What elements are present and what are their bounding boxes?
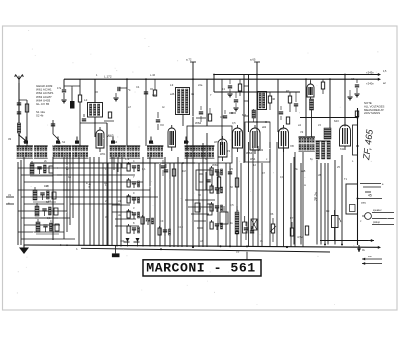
RC group G4 [36,222,40,232]
switch arm K1 [19,135,26,141]
stub wire left margin b [6,203,14,205]
diode D2 [136,238,140,242]
wire coilA bottom link [80,122,107,124]
svg-text:R7: R7 [290,216,294,220]
svg-text:0,5: 0,5 [232,121,236,125]
wire drop V95 [94,79,96,103]
capacitor C2 [62,89,66,91]
wire drop V64 [63,79,65,89]
svg-text:VH3: VH3 [258,148,264,152]
valve V10 output [340,125,351,146]
resistor R17 [286,117,289,124]
small link h118 [196,117,206,119]
wire S3 legs [113,157,115,170]
svg-text:632: 632 [340,147,345,151]
ground gnd2 [354,93,359,95]
resistor R12 crossed [251,219,257,230]
svg-text:pickup: pickup [373,221,381,224]
coil L7 [310,99,314,110]
svg-text:W6: W6 [280,127,284,131]
wire aerial branch [26,100,28,146]
svg-text:0,1: 0,1 [142,167,146,171]
wire above title [246,252,248,260]
wire HT bus main [64,78,378,80]
capacitor C4 [120,87,127,89]
wire vertical rails right [293,157,295,245]
svg-text:22a: 22a [198,83,203,87]
IF trimmer C14 [252,110,256,118]
valve V3 [168,128,176,147]
wire L3 lead [182,115,184,127]
svg-text:S2 4b: S2 4b [36,113,44,117]
wire left rail b [20,160,22,245]
diode D1 [126,238,130,242]
svg-text:17a: 17a [57,87,62,90]
switch S2b [72,145,88,147]
svg-text:46: 46 [191,92,195,96]
wire fan left-to-middle [57,167,127,169]
junction bottom d4 [192,246,194,248]
box P4 [195,203,200,212]
svg-text:W64: W64 [250,157,256,161]
stub wire left margin a [6,196,14,198]
ground main arrow [23,245,25,248]
wire left rail c [23,157,25,245]
wire nested loops right-center [185,199,215,201]
resistor R1 [79,79,81,86]
svg-text:W62: W62 [195,121,202,125]
output coil L5 [316,141,319,159]
trimmer TR6 [184,141,188,144]
svg-text:R6: R6 [270,212,274,216]
wire drop V345 [344,75,346,127]
svg-text:C9: C9 [160,219,164,223]
antenna A1 [15,75,23,84]
capacitor C8 [355,84,359,86]
down arrow earth [358,245,360,252]
resistor R11 [243,222,248,233]
resistor R10 [217,177,220,188]
resistor R9 [332,216,339,228]
small part P3 [235,178,238,187]
wire vertical rails middle [116,163,118,247]
wire drop V214 [213,75,215,93]
wire tube row shelf [30,162,195,164]
RC group G17 [158,228,161,235]
svg-text:643: 643 [334,119,339,123]
wire right short bus [320,240,368,242]
wire link 122 [249,121,271,123]
svg-text:GL.CV 65: GL.CV 65 [36,102,50,106]
wire right rail [300,117,358,119]
wire drop V278 [277,79,279,132]
RC group G5 [127,164,130,171]
RC group G3 [35,206,39,216]
junction j163 [182,162,184,164]
capacitor C13 [228,85,232,87]
terminal arrow out1 [372,212,394,214]
wire vertical rails center [169,163,171,247]
trimmer TR1 [24,141,28,144]
resistor R5 [355,111,358,117]
switch S3 [110,145,126,147]
svg-text:S5: S5 [186,140,190,144]
svg-text:4,5v: 4,5v [297,235,303,239]
trimmer C3 [82,118,86,120]
wire drop V222 [221,79,223,145]
svg-text:a.65: a.65 [250,58,256,62]
terminal line t3 [358,198,383,200]
svg-text:L.172: L.172 [104,75,112,79]
wire drop V244 [243,75,245,164]
svg-text:16b: 16b [120,239,125,243]
svg-text:casc: casc [361,202,367,205]
ground gnd3 [347,96,352,98]
valve V6 [233,128,243,148]
trimmer TR3 [75,141,79,144]
trimmer TR5 [149,141,153,144]
svg-text:0,5: 0,5 [230,203,234,207]
RC group G1 [30,164,34,174]
capacitor C7 [294,103,298,105]
svg-text:V9: V9 [300,130,304,134]
junction bottom d5 [229,245,231,247]
box P6 [220,212,228,224]
svg-text:W6: W6 [214,140,218,144]
svg-text:speaker: speaker [373,209,382,212]
terminal line t1 [360,183,381,185]
wire drop V207 [206,79,208,126]
svg-text:0,1: 0,1 [280,175,284,179]
resistor R8 [305,226,308,235]
terminal line b1 [362,258,382,260]
wire drop V127 [126,79,128,146]
valve V5 [218,139,227,157]
svg-text:220V MAINS: 220V MAINS [364,111,380,115]
switch S1a [17,145,33,147]
RC group G14 [210,186,213,193]
valve V8 [279,128,289,148]
box P5 [207,204,212,215]
wire drop V357 [357,108,359,245]
coil L6 [324,128,331,139]
junction d1 [356,116,358,118]
capacitor C10 [250,230,254,232]
IF transformer L2 block [88,103,103,118]
valve V9 [307,84,314,97]
svg-text:74: 74 [227,149,231,153]
junction bottom d6 [324,244,326,246]
RC group G16 [210,222,213,229]
wire drop V146t [145,79,147,146]
svg-text:V3: V3 [160,123,164,127]
wire main bottom bus [66,245,378,247]
terminal line b2 [362,263,382,265]
svg-text:46: 46 [272,97,276,101]
resistor R2 [238,84,241,91]
svg-text:+245v: +245v [366,71,374,75]
resistor R4 [321,82,324,89]
wire drop V330 [329,79,331,128]
scan speckle noise [131,71,134,74]
terminal arrow out3 [372,224,394,226]
svg-text:141: 141 [152,93,157,97]
title box [143,260,261,276]
detector box U1 [196,170,212,190]
junction d2 [356,145,358,147]
wire inner rails left [63,157,65,239]
RC group G15 [210,204,213,211]
ground gnd1 [63,93,65,99]
svg-text:C8: C8 [351,77,355,81]
svg-text:R3: R3 [286,89,290,93]
wire osc top [192,62,194,146]
switch S4 [147,145,163,147]
capacitor C6 [234,99,238,101]
svg-text:47k: 47k [125,157,130,161]
wire stack spine [52,157,54,240]
svg-text:622: 622 [242,114,247,117]
RC group G6 [127,180,130,187]
svg-text:S1: S1 [23,140,27,144]
svg-text:w: w [304,184,306,187]
RC group G8 [127,211,130,218]
module box A [187,126,232,163]
resistor R7 [290,228,293,236]
capacitor C16 [199,111,203,113]
svg-text:a.72: a.72 [186,58,192,62]
svg-text:W64: W64 [246,151,253,155]
svg-text:S2: S2 [62,140,66,144]
junction bottom d3 [286,246,288,248]
capacitor C1 [17,102,21,104]
trimmer TR2 [56,141,60,144]
transformer T1 box [346,184,358,214]
wire secondary bottom bus [81,248,330,252]
svg-text:0,2: 0,2 [50,219,54,223]
wire antenna lead [18,83,20,146]
resistor R15 [25,104,28,112]
IF transformer L4 block [258,92,267,110]
svg-text:L2: L2 [84,98,88,102]
capacitor C15 [161,165,165,167]
svg-text:C4: C4 [136,85,140,89]
svg-text:L3: L3 [170,83,174,87]
jack J1 [365,213,372,220]
wire center shelf [214,91,300,93]
valve V7 [250,128,260,150]
capacitor C18 [279,111,283,113]
switch S6 [299,136,315,138]
small part P2 [228,171,232,173]
oscillator coil L3 [176,88,190,115]
module box B [245,122,270,162]
svg-text:a65: a65 [301,169,306,173]
wire vertical rails right-center [217,157,219,247]
resistor R14 [268,96,271,103]
terminal arrow out2 [372,218,394,220]
terminal line t2 [363,186,381,188]
wire drop V306 [305,79,307,136]
junction bus dots [126,78,128,80]
resistor R6 [271,224,274,233]
switch S2a [53,145,72,147]
ZF coil box [353,125,358,155]
terminal label 45 [365,191,371,193]
RC group G7 [127,196,130,203]
svg-text:W61: W61 [100,152,106,156]
svg-text:V8: V8 [290,144,294,148]
resistor R13 [153,90,156,96]
wire HT bus upper [214,74,378,76]
switch S3b [127,145,141,147]
switch S1b [34,145,48,147]
svg-text:47k: 47k [220,115,225,119]
trimmer C5 [156,119,160,121]
svg-text:L.46: L.46 [150,73,156,77]
electrolytic coil bar [235,212,239,234]
RC group G13 [210,168,213,175]
svg-text:R9: R9 [326,209,330,213]
RC group G11 [141,217,144,224]
capacitor C17 [223,115,227,117]
capacitor C1b [17,111,21,113]
switch S5 [185,145,215,147]
trimmer TR4 [111,141,115,144]
wire nested loops left [18,167,58,169]
coil L1 on antenna lead [17,123,20,133]
resistor R3 [288,96,291,103]
wire left rail a [17,162,19,245]
svg-text:33: 33 [8,137,12,141]
wire osc2 top [256,62,258,132]
valve V1 [96,130,104,148]
ladder rungs feeder [244,85,249,87]
component K2 [52,120,54,134]
wire vertical rails left-center [78,157,80,246]
resistor R16 [208,114,211,121]
wire drop V249 [248,75,250,133]
wire ground bus left [24,244,69,246]
electrolytic CE1 [71,88,73,101]
svg-text:MARCONI - 561: MARCONI - 561 [146,261,255,276]
svg-text:a46: a46 [170,92,175,96]
svg-text:a62: a62 [262,126,267,129]
svg-text:S3: S3 [114,140,118,144]
svg-text:C10: C10 [178,225,183,229]
svg-text:16: 16 [236,250,240,254]
svg-text:+240v: +240v [366,82,374,86]
svg-text:1M: 1M [182,169,186,173]
svg-text:W63: W63 [212,163,219,167]
chassis ground G0 [112,253,120,257]
capacitor C9 [244,227,248,229]
small part P1 [172,169,175,176]
RC group G9 [127,226,130,233]
capacitor C11 [164,169,168,171]
svg-text:45: 45 [368,194,372,198]
junction j110 [231,112,233,114]
RC group G2 [33,190,37,200]
wire nested loops middle [112,204,130,206]
capacitor C4b [144,91,148,93]
small link h124 [104,120,114,122]
